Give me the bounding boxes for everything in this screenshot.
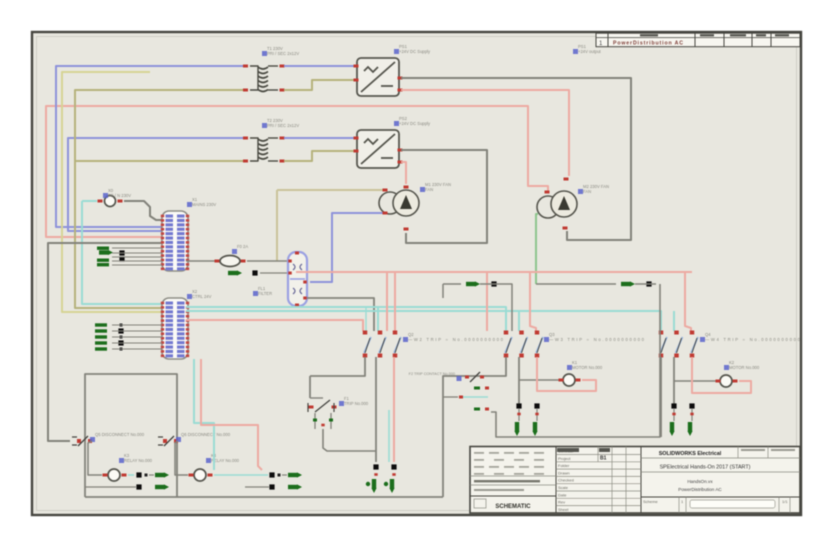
wire blue T2 to U2 bbox=[284, 137, 354, 139]
svg-text:CTRL 24V: CTRL 24V bbox=[192, 294, 212, 299]
PE terminals into X1 bbox=[97, 247, 109, 250]
wire Q5 to K3 bbox=[88, 441, 102, 475]
svg-text:FAN: FAN bbox=[425, 187, 433, 192]
wire olive T1 to U1 bbox=[284, 80, 354, 90]
svg-text:+24V DC Supply: +24V DC Supply bbox=[399, 121, 431, 126]
svg-text:PE / N 230V: PE / N 230V bbox=[108, 193, 131, 198]
svg-text:F0 2A: F0 2A bbox=[237, 244, 248, 249]
wire cyan ctrl B bbox=[186, 311, 661, 331]
fan M1 bbox=[277, 189, 386, 191]
coil K3 bbox=[108, 469, 120, 481]
PE arrows mid bbox=[466, 281, 480, 286]
wire cyan/salmon pair strip2 to K4 bbox=[194, 359, 214, 470]
wire red 0V U2 to fan1 bbox=[401, 162, 406, 184]
svg-text:Date: Date bbox=[558, 492, 567, 497]
fan M2 bbox=[537, 196, 559, 218]
svg-text:Drawn: Drawn bbox=[558, 470, 570, 475]
device X0 circle bbox=[105, 196, 116, 207]
svg-text:FILTER: FILTER bbox=[258, 291, 272, 296]
breaker Q4 group bbox=[659, 331, 664, 335]
header table top right bbox=[596, 33, 800, 47]
PE arrows right bbox=[621, 281, 635, 286]
cyan drops bbox=[377, 307, 379, 331]
breaker Q3 group bbox=[504, 331, 509, 335]
arrow stubs F-area bbox=[474, 387, 480, 390]
svg-text:PowerDistribution AC: PowerDistribution AC bbox=[613, 41, 683, 47]
wire blue L1 circuit2 bbox=[68, 138, 243, 231]
wire olive T2 to U2 bbox=[284, 151, 354, 161]
wire Q6 to K4 bbox=[175, 441, 188, 475]
wire to PE g2 bbox=[518, 409, 520, 421]
filter FL1 bbox=[288, 252, 307, 306]
wire red 0V U1 to fan2 bbox=[401, 90, 569, 176]
wire gray +24V loop to fan2 bbox=[401, 78, 631, 240]
wire salmon L row to group1 bbox=[186, 320, 363, 331]
wire yellow to strip2 bbox=[62, 72, 162, 312]
wire gray X0 to strip1 bbox=[124, 201, 162, 220]
group3 PE wire bbox=[660, 357, 662, 437]
switch Q5 bbox=[72, 437, 77, 445]
terminal strip X1 bbox=[162, 211, 188, 271]
svg-text:Scheme: Scheme bbox=[643, 499, 658, 504]
gray PE return loop bbox=[491, 284, 660, 437]
svg-text:MOTOR No.000: MOTOR No.000 bbox=[729, 365, 760, 370]
svg-text:B1: B1 bbox=[600, 456, 607, 462]
title block bbox=[470, 447, 800, 514]
wire cyan left riser bbox=[82, 201, 162, 304]
rectifier U1 bbox=[357, 58, 399, 96]
wire salmon K1 loop bbox=[537, 357, 596, 391]
location box bottom-left bbox=[85, 374, 177, 497]
coil K4 bbox=[194, 469, 206, 481]
wire red N from strip1 up-left and across top bbox=[46, 106, 548, 237]
wire olive branch circuit2 bbox=[75, 160, 243, 162]
svg-text:SOLIDWORKS Electrical: SOLIDWORKS Electrical bbox=[659, 451, 722, 457]
svg-text:SPElectrical Hands-On 2017 (ST: SPElectrical Hands-On 2017 (START) bbox=[660, 465, 751, 471]
svg-text:Sheet: Sheet bbox=[558, 507, 569, 512]
breaker Q2 group bbox=[363, 331, 368, 335]
wire cyan K4 out bbox=[214, 474, 268, 476]
title block left section bbox=[470, 475, 556, 477]
rectifier U2 bbox=[357, 130, 399, 168]
svg-text:Project: Project bbox=[558, 456, 571, 461]
PE green arrows group1 bbox=[371, 479, 376, 493]
svg-text:+24V DC Supply: +24V DC Supply bbox=[399, 49, 431, 54]
title block right section bbox=[641, 457, 800, 459]
svg-text:Folder: Folder bbox=[558, 463, 570, 468]
trip device F1 mid bbox=[310, 397, 323, 399]
PE arrow + dot row to filter bbox=[228, 270, 242, 275]
group1 drops bbox=[310, 357, 365, 376]
wire blue M1 left-bottom bbox=[310, 213, 383, 282]
svg-text:Checked: Checked bbox=[558, 478, 574, 483]
PE terminals into X2 bbox=[95, 323, 107, 326]
switch Q6 bbox=[158, 437, 163, 445]
svg-text:MOTOR No.000: MOTOR No.000 bbox=[572, 365, 603, 370]
contactor K1 bbox=[519, 379, 560, 381]
wire filter out gray bbox=[307, 298, 374, 331]
svg-text:F2 TRIP CONTACT No.000: F2 TRIP CONTACT No.000 bbox=[409, 372, 455, 376]
wire N row strip1 to fuse bbox=[186, 260, 216, 262]
transformer T1 bbox=[243, 65, 248, 68]
wire blue T1 to U1 bbox=[284, 65, 354, 67]
svg-text:RELAY No.000: RELAY No.000 bbox=[211, 458, 240, 463]
terminal strip X2 bbox=[162, 298, 188, 359]
svg-text:Q5 DISCONNECT No.000: Q5 DISCONNECT No.000 bbox=[95, 432, 145, 437]
fuse F0 bbox=[215, 260, 220, 263]
svg-text:HandsOn.vx: HandsOn.vx bbox=[687, 479, 713, 484]
svg-text:+24V output: +24V output bbox=[578, 49, 602, 54]
stub wire with cyan tag bbox=[443, 396, 458, 398]
wire olive N primary bbox=[75, 90, 243, 308]
wire cyan ctrl A bbox=[186, 307, 506, 331]
svg-text:MAINS 230V: MAINS 230V bbox=[192, 202, 216, 207]
wire salmon K2 loop bbox=[692, 357, 751, 393]
contactor K2 bbox=[674, 380, 717, 382]
wire gray +24V loop to fan1 bbox=[401, 150, 487, 243]
svg-text:SCHEMATIC: SCHEMATIC bbox=[495, 504, 531, 510]
wire gray PE riser left bbox=[48, 243, 162, 441]
svg-text:PRI / SEC 2x12V: PRI / SEC 2x12V bbox=[267, 51, 299, 56]
transformer T2 bbox=[243, 137, 248, 140]
svg-text:Rev: Rev bbox=[558, 500, 565, 505]
svg-text:TRIP No.000: TRIP No.000 bbox=[344, 401, 369, 406]
svg-text:1/1: 1/1 bbox=[782, 499, 788, 504]
svg-text:PRI / SEC 2x12V: PRI / SEC 2x12V bbox=[267, 123, 299, 128]
group2 PE wire bbox=[443, 357, 506, 497]
wire F1 output to group1 column bbox=[323, 429, 376, 451]
wire green M2 PE down bbox=[536, 214, 538, 284]
sheet background bbox=[32, 32, 801, 515]
svg-text:PowerDistribution AC: PowerDistribution AC bbox=[678, 487, 722, 492]
wire salmon top feed row bbox=[296, 271, 692, 273]
svg-text:FAN: FAN bbox=[583, 189, 591, 194]
title block middle rows bbox=[556, 454, 641, 456]
svg-text:Scale: Scale bbox=[558, 485, 569, 490]
wire blue L1 circuit1 bbox=[56, 66, 243, 227]
svg-text:Q6 DISCONNECT No.000: Q6 DISCONNECT No.000 bbox=[181, 432, 231, 437]
svg-text:RELAY No.000: RELAY No.000 bbox=[124, 458, 153, 463]
wire fuse to filter bbox=[247, 260, 287, 262]
